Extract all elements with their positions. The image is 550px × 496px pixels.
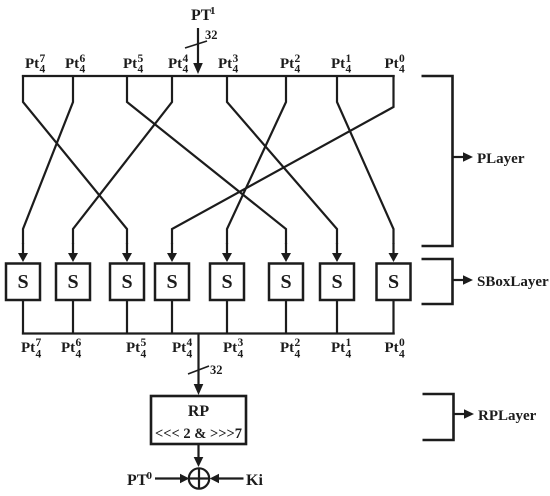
wire S-box S8 output: [392, 300, 394, 335]
wire RP box to XOR: [197, 444, 199, 459]
svg-text:<<< 2 & >>>7: <<< 2 & >>>7: [155, 426, 242, 442]
svg-text:Pt: Pt: [126, 340, 140, 356]
wire PLayer path Pt4^7 to S-box 3: [23, 75, 127, 244]
svg-text:1: 1: [210, 5, 216, 17]
S-box S3: [110, 264, 144, 301]
bracket PLayer: [422, 76, 453, 246]
wire PLayer path Pt4^6 to S-box 1: [23, 75, 73, 244]
svg-text:4: 4: [138, 64, 144, 76]
svg-text:Pt: Pt: [123, 56, 137, 72]
svg-text:Pt: Pt: [385, 340, 399, 356]
svg-text:4: 4: [399, 349, 405, 361]
S-box S8: [377, 264, 411, 301]
svg-text:4: 4: [187, 349, 193, 361]
bracket SBoxLayer: [422, 259, 453, 304]
svg-text:Ki: Ki: [246, 472, 263, 489]
svg-text:4: 4: [295, 64, 301, 76]
wire S-box S3 output: [126, 300, 128, 335]
S-box S7: [320, 264, 354, 301]
svg-text:4: 4: [295, 349, 301, 361]
svg-text:4: 4: [399, 64, 405, 76]
wire S-box S7 output: [336, 300, 338, 335]
svg-text:4: 4: [141, 349, 147, 361]
svg-text:PT: PT: [127, 472, 148, 489]
svg-text:7: 7: [36, 337, 42, 349]
svg-text:0: 0: [399, 337, 405, 349]
block RP rotation box: [151, 396, 246, 444]
wire PT1 input arrow: [197, 28, 199, 65]
svg-text:Pt: Pt: [61, 340, 75, 356]
wire SBoxLayer pointer: [453, 279, 464, 281]
svg-text:PLayer: PLayer: [477, 151, 525, 167]
XOR node (PT0 xor Ki): [189, 468, 209, 488]
svg-text:3: 3: [238, 337, 244, 349]
svg-text:Pt: Pt: [280, 340, 294, 356]
svg-text:S: S: [17, 271, 28, 293]
wire RPLayer pointer: [454, 413, 465, 415]
wire top input bus: [22, 75, 395, 77]
svg-text:Pt: Pt: [331, 56, 345, 72]
svg-text:0: 0: [147, 470, 153, 482]
svg-text:RP: RP: [188, 403, 210, 420]
wire S-box S1 output: [22, 300, 24, 335]
svg-text:4: 4: [233, 64, 239, 76]
S-box S4: [155, 264, 189, 301]
wire PT0 to XOR: [155, 477, 180, 479]
wire S-box S5 output: [226, 300, 228, 335]
svg-text:5: 5: [141, 337, 147, 349]
svg-text:32: 32: [205, 28, 218, 42]
svg-text:4: 4: [80, 64, 86, 76]
svg-text:Pt: Pt: [218, 56, 232, 72]
svg-text:32: 32: [210, 363, 223, 377]
svg-text:S: S: [280, 271, 291, 293]
svg-text:Pt: Pt: [65, 56, 79, 72]
svg-text:Pt: Pt: [21, 340, 35, 356]
svg-text:Pt: Pt: [168, 56, 182, 72]
svg-text:4: 4: [346, 64, 352, 76]
svg-text:6: 6: [76, 337, 82, 349]
svg-text:Pt: Pt: [385, 56, 399, 72]
S-box S6: [269, 264, 303, 301]
svg-text:4: 4: [183, 64, 189, 76]
wire Ki to XOR: [219, 477, 244, 479]
wire PLayer path Pt4^2 to S-box 5: [227, 75, 286, 244]
wire bus to RP box: [197, 334, 199, 387]
svg-text:4: 4: [76, 349, 82, 361]
svg-text:4: 4: [346, 349, 352, 361]
S-box S5: [210, 264, 244, 301]
svg-text:S: S: [166, 271, 177, 293]
bus-width slash 32 (top): [185, 41, 207, 48]
svg-text:S: S: [388, 271, 399, 293]
svg-text:Pt: Pt: [280, 56, 294, 72]
svg-text:Pt: Pt: [331, 340, 345, 356]
svg-text:4: 4: [187, 337, 193, 349]
svg-text:4: 4: [238, 349, 244, 361]
S-box S1: [6, 264, 40, 301]
wire bottom output bus: [22, 332, 395, 334]
bracket RPLayer: [423, 394, 454, 440]
svg-text:S: S: [121, 271, 132, 293]
svg-text:4: 4: [36, 349, 42, 361]
wire S-box S4 output: [171, 300, 173, 335]
svg-text:SBoxLayer: SBoxLayer: [477, 274, 549, 290]
svg-text:PT: PT: [191, 7, 212, 24]
svg-text:Pt: Pt: [223, 340, 237, 356]
svg-text:Pt: Pt: [25, 56, 39, 72]
svg-text:1: 1: [346, 337, 352, 349]
wire S-box S2 output: [72, 300, 74, 335]
svg-text:4: 4: [40, 64, 46, 76]
wire PLayer path Pt4^1 to S-box 8: [337, 75, 394, 244]
wire PLayer path Pt4^0 to S-box 4: [172, 75, 394, 244]
wire PLayer path Pt4^5 to S-box 6: [127, 75, 286, 244]
svg-text:S: S: [221, 271, 232, 293]
S-box S2: [56, 264, 90, 301]
svg-text:RPLayer: RPLayer: [478, 408, 537, 424]
wire S-box S6 output: [285, 300, 287, 335]
wire PLayer pointer: [453, 156, 464, 158]
wire PLayer path Pt4^3 to S-box 7: [227, 75, 337, 244]
svg-text:Pt: Pt: [172, 340, 186, 356]
wire PLayer path Pt4^4 to S-box 2: [73, 75, 172, 244]
svg-text:S: S: [67, 271, 78, 293]
bus-width slash 32 (bottom): [188, 366, 209, 374]
svg-text:S: S: [331, 271, 342, 293]
svg-text:2: 2: [295, 337, 301, 349]
